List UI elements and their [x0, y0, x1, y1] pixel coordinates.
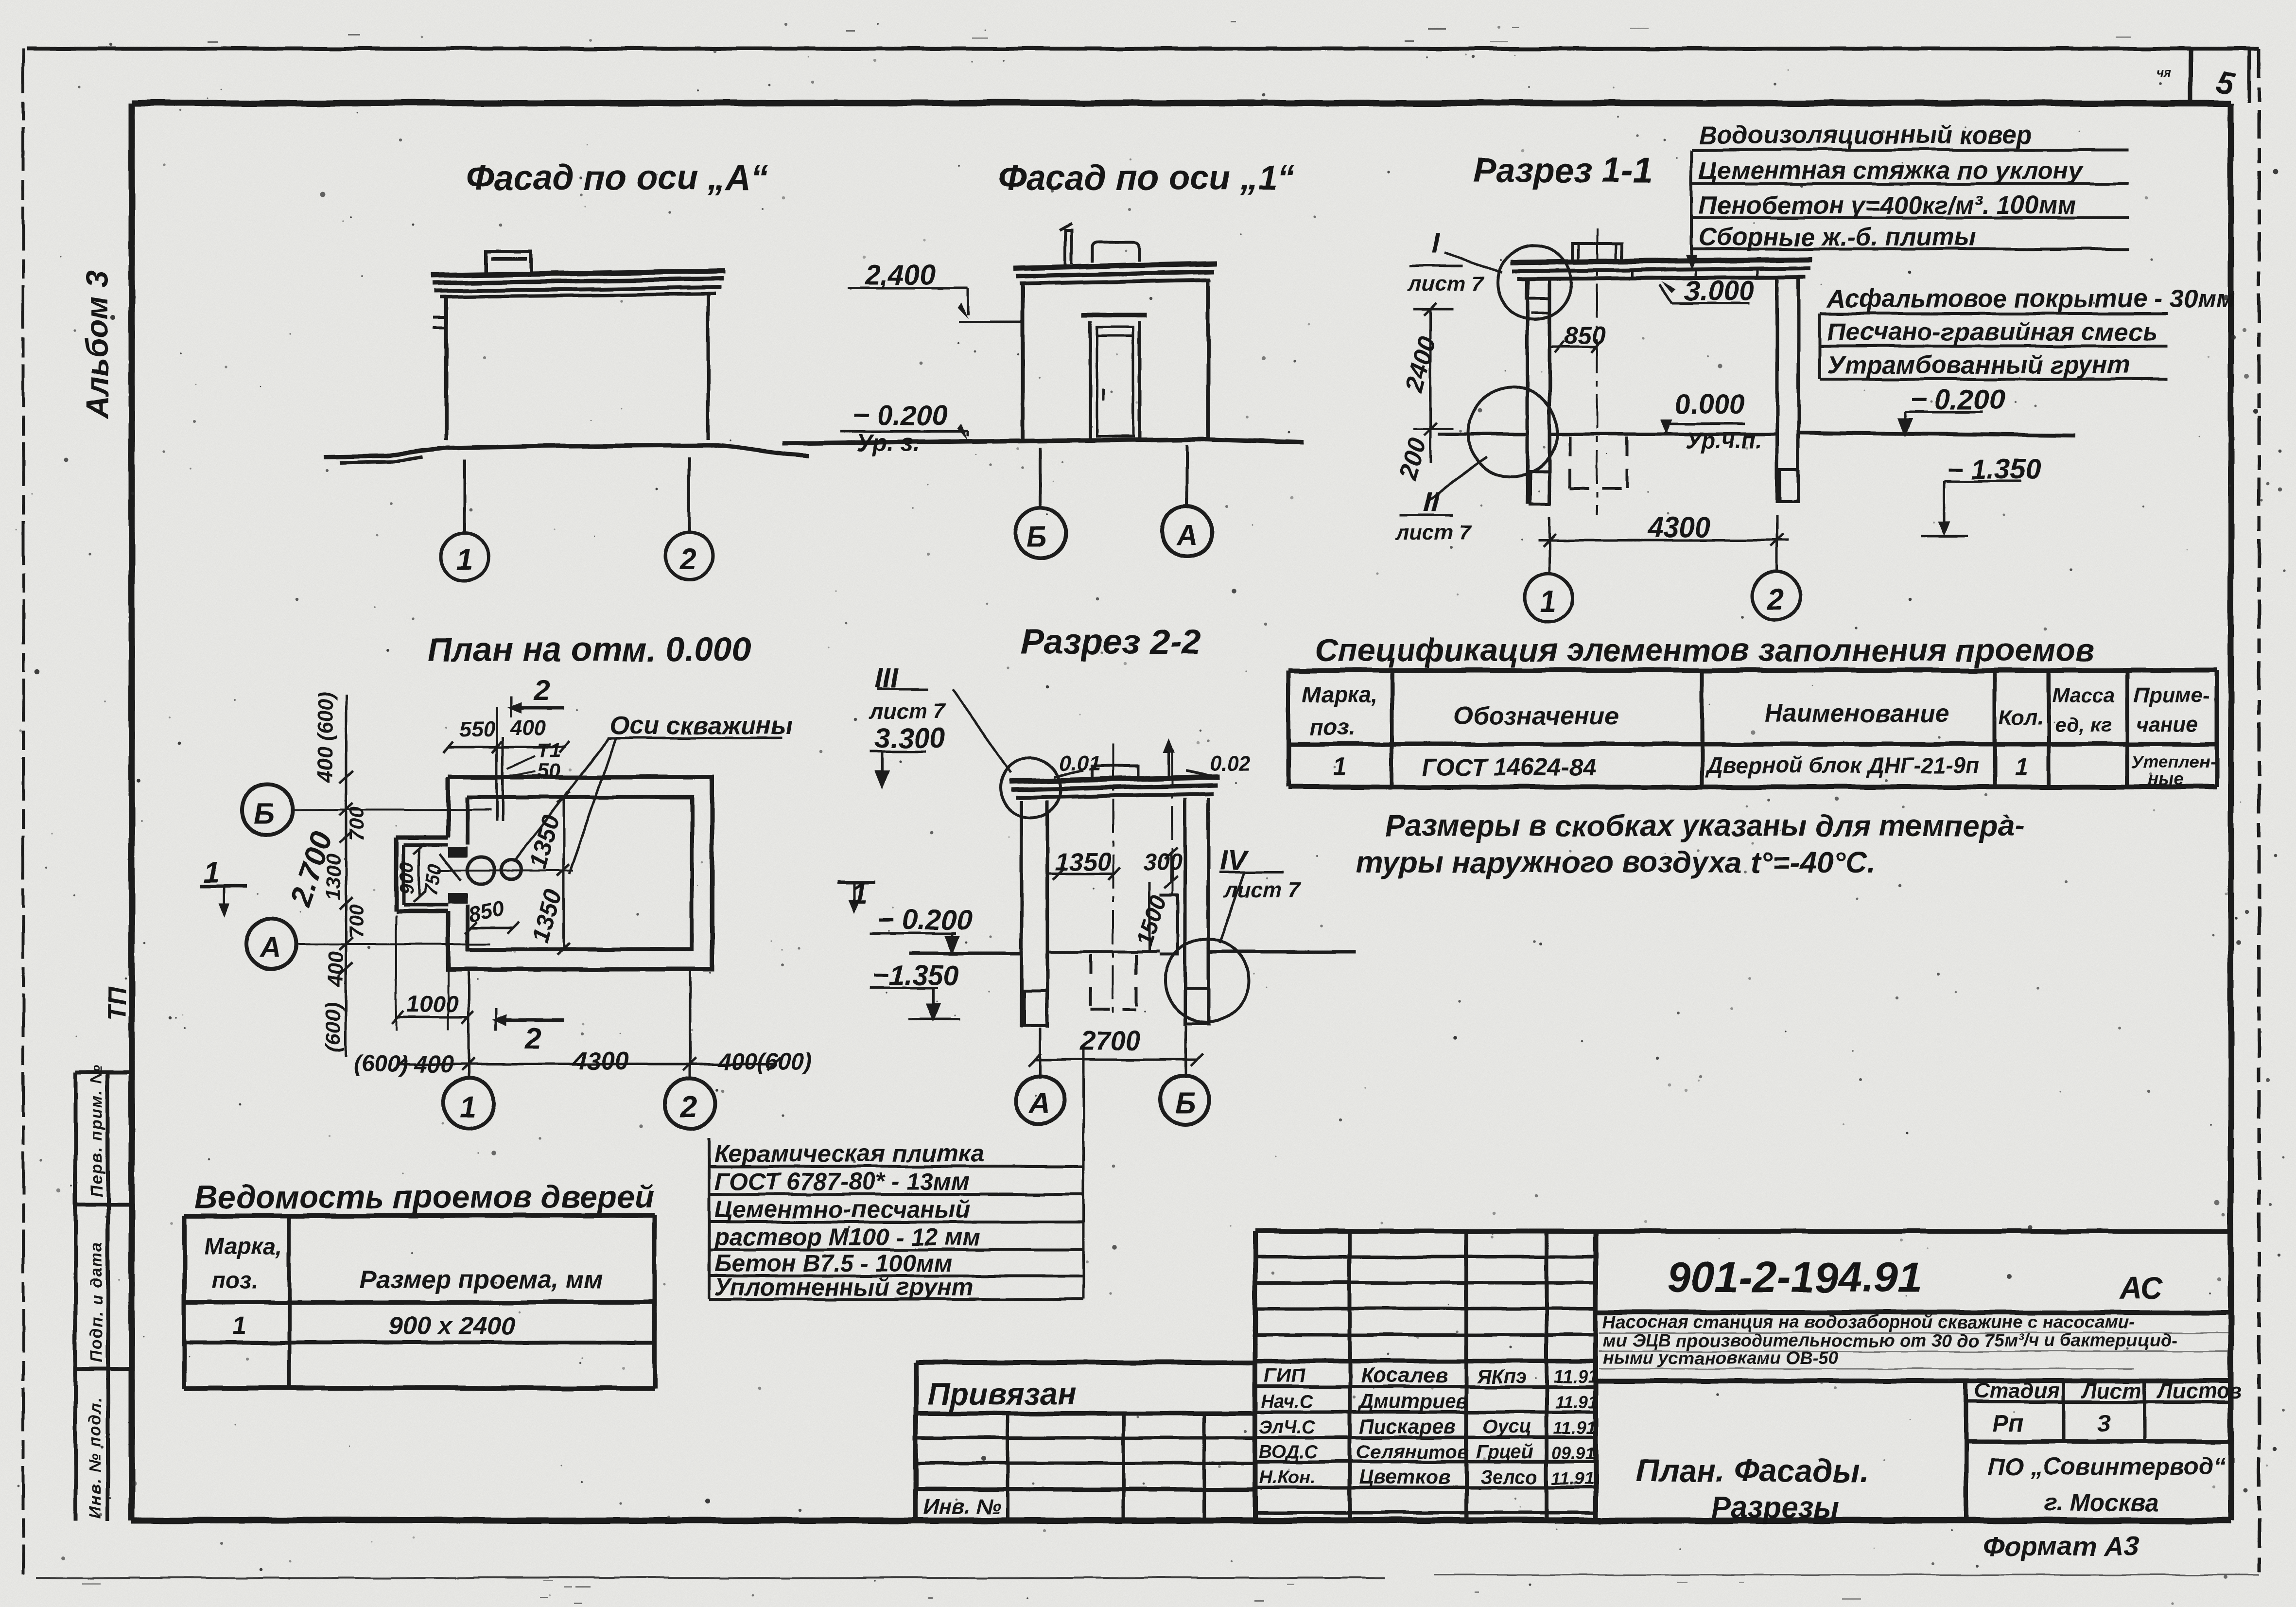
svg-text:Цементная стяжка по уклону: Цементная стяжка по уклону [1699, 157, 2084, 185]
svg-text:Приме-: Приме- [2134, 683, 2210, 707]
svg-text:Подп. и дата: Подп. и дата [87, 1241, 106, 1362]
svg-text:550: 550 [459, 717, 495, 741]
svg-text:Цветков: Цветков [1359, 1465, 1450, 1488]
svg-text:Марка,: Марка, [1303, 682, 1378, 707]
svg-text:400: 400 [510, 716, 546, 740]
svg-text:11.91: 11.91 [1555, 1392, 1598, 1412]
svg-text:1: 1 [1540, 585, 1556, 618]
svg-text:− 0.200: − 0.200 [853, 400, 948, 432]
svg-text:3.300: 3.300 [875, 722, 945, 754]
svg-text:700: 700 [345, 807, 368, 841]
svg-text:лист 7: лист 7 [1395, 521, 1472, 544]
svg-text:(600) 400: (600) 400 [354, 1051, 454, 1077]
svg-text:Водоизоляционный ковер: Водоизоляционный ковер [1699, 121, 2032, 149]
svg-text:Керамическая плитка: Керамическая плитка [714, 1140, 984, 1167]
svg-text:1: 1 [459, 1090, 476, 1124]
svg-text:Б: Б [1026, 521, 1047, 553]
svg-text:лист 7: лист 7 [869, 699, 946, 723]
svg-text:Сборные ж.-б. плиты: Сборные ж.-б. плиты [1699, 223, 1976, 251]
svg-text:2: 2 [533, 674, 550, 706]
svg-text:1: 1 [203, 856, 219, 889]
svg-text:−1.350: −1.350 [872, 960, 959, 991]
svg-text:А: А [1175, 519, 1197, 551]
svg-text:Разрез 1-1: Разрез 1-1 [1473, 151, 1652, 190]
svg-text:3.000: 3.000 [1684, 275, 1755, 307]
svg-text:11.91: 11.91 [1553, 1418, 1596, 1438]
svg-text:− 0.200: − 0.200 [1910, 384, 2005, 416]
svg-text:ные: ные [2148, 769, 2184, 789]
svg-text:Косалев: Косалев [1361, 1363, 1448, 1387]
svg-text:ТП: ТП [103, 986, 131, 1021]
svg-text:IV: IV [1220, 845, 1249, 876]
svg-text:300: 300 [1143, 850, 1182, 875]
svg-text:Н.Кон.: Н.Кон. [1259, 1467, 1316, 1487]
svg-text:Селянитов: Селянитов [1356, 1441, 1469, 1463]
svg-text:4300: 4300 [1647, 512, 1710, 543]
svg-text:ЭлЧ.С: ЭлЧ.С [1259, 1417, 1315, 1437]
svg-text:Листов: Листов [2157, 1379, 2243, 1403]
svg-text:Зелсо: Зелсо [1480, 1467, 1538, 1488]
svg-text:Уплотненный грунт: Уплотненный грунт [714, 1274, 974, 1301]
svg-text:туры наружного воздуха t°=-40°: туры наружного воздуха t°=-40°С. [1356, 846, 1876, 879]
svg-text:700: 700 [345, 904, 368, 938]
svg-text:лист 7: лист 7 [1408, 272, 1485, 296]
svg-text:Цементно-песчаный: Цементно-песчаный [714, 1196, 970, 1223]
svg-text:Перв. прим. №: Перв. прим. № [87, 1064, 106, 1197]
svg-text:Оси скважины: Оси скважины [610, 712, 793, 740]
svg-text:Дверной блок ДНГ-21-9п: Дверной блок ДНГ-21-9п [1705, 752, 1980, 778]
svg-text:Наименование: Наименование [1764, 699, 1949, 728]
svg-text:III: III [875, 663, 899, 694]
svg-text:0.01: 0.01 [1060, 751, 1101, 775]
svg-text:лист 7: лист 7 [1224, 878, 1301, 902]
svg-text:Формат А3: Формат А3 [1983, 1531, 2139, 1561]
svg-text:Размеры в скобках указаны для: Размеры в скобках указаны для темпера̀- [1385, 809, 2025, 843]
svg-text:чание: чание [2136, 713, 2198, 736]
svg-text:2700: 2700 [1079, 1025, 1141, 1056]
svg-text:Фасад по оси „1“: Фасад по оси „1“ [999, 158, 1295, 197]
svg-text:Масса: Масса [2052, 684, 2115, 707]
svg-text:чя: чя [2157, 65, 2171, 80]
svg-text:1300: 1300 [322, 855, 345, 900]
svg-text:ед, кг: ед, кг [2055, 713, 2112, 736]
svg-text:Марка,: Марка, [204, 1234, 283, 1259]
svg-text:План. Фасады.: План. Фасады. [1636, 1452, 1869, 1488]
svg-text:ГИП: ГИП [1264, 1364, 1306, 1387]
svg-text:Размер проема, мм: Размер проема, мм [360, 1266, 603, 1294]
svg-text:900 х 2400: 900 х 2400 [389, 1312, 515, 1340]
svg-text:− 0.200: − 0.200 [877, 904, 972, 936]
svg-text:50: 50 [538, 759, 560, 782]
svg-text:400: 400 [324, 951, 348, 987]
svg-text:2: 2 [679, 542, 696, 576]
svg-text:Утрамбованный грунт: Утрамбованный грунт [1827, 351, 2130, 379]
svg-text:Разрезы: Разрезы [1711, 1491, 1839, 1524]
svg-text:11.91: 11.91 [1551, 1468, 1594, 1488]
svg-text:Ур. з.: Ур. з. [856, 429, 920, 456]
svg-text:Песчано-гравийная смесь: Песчано-гравийная смесь [1827, 318, 2157, 346]
svg-text:09.91: 09.91 [1551, 1443, 1595, 1463]
svg-text:1: 1 [852, 877, 868, 909]
svg-text:Нач.С: Нач.С [1261, 1392, 1313, 1412]
svg-text:2: 2 [1767, 583, 1784, 616]
svg-text:850: 850 [1564, 322, 1606, 350]
svg-text:ВОД.С: ВОД.С [1259, 1442, 1318, 1462]
svg-text:0.000: 0.000 [1674, 389, 1745, 420]
svg-text:Рп: Рп [1993, 1410, 2024, 1437]
svg-text:− 1.350: − 1.350 [1947, 454, 2041, 485]
svg-text:0.02: 0.02 [1209, 751, 1251, 775]
svg-text:II: II [1423, 486, 1440, 518]
svg-text:ПО „Совинтервод“: ПО „Совинтервод“ [1988, 1453, 2226, 1480]
svg-text:поз.: поз. [1310, 715, 1355, 740]
svg-text:Инв. №: Инв. № [923, 1495, 1001, 1519]
svg-text:поз.: поз. [211, 1268, 258, 1293]
svg-text:11.91: 11.91 [1553, 1366, 1598, 1387]
svg-text:А: А [1028, 1087, 1050, 1119]
svg-text:400 (600): 400 (600) [313, 691, 337, 783]
svg-text:Инв. № подл.: Инв. № подл. [86, 1397, 104, 1518]
svg-text:Б: Б [1175, 1087, 1196, 1119]
svg-text:3: 3 [2097, 1410, 2111, 1437]
svg-text:Разрез 2-2: Разрез 2-2 [1021, 623, 1200, 662]
svg-text:Бетон В7.5 - 100мм: Бетон В7.5 - 100мм [714, 1250, 952, 1277]
svg-text:ГОСТ 6787-80* - 13мм: ГОСТ 6787-80* - 13мм [714, 1168, 970, 1195]
svg-text:1350: 1350 [1055, 848, 1111, 876]
svg-text:Дмитриев: Дмитриев [1357, 1390, 1468, 1413]
svg-text:4300: 4300 [572, 1047, 629, 1075]
svg-text:Кол.: Кол. [1999, 705, 2043, 729]
svg-text:раствор М100 - 12 мм: раствор М100 - 12 мм [713, 1223, 981, 1251]
svg-text:ЯКпэ: ЯКпэ [1477, 1366, 1526, 1387]
svg-text:Асфальтовое покрытие - 30мм: Асфальтовое покрытие - 30мм [1826, 285, 2235, 313]
svg-text:Лист: Лист [2081, 1379, 2141, 1403]
svg-text:Пискарев: Пискарев [1359, 1415, 1456, 1438]
svg-text:г. Москва: г. Москва [2044, 1489, 2159, 1516]
svg-text:Стадия: Стадия [1974, 1379, 2059, 1403]
svg-text:1: 1 [456, 543, 472, 576]
svg-text:Фасад по оси „А“: Фасад по оси „А“ [467, 158, 768, 197]
svg-text:2: 2 [680, 1090, 697, 1124]
svg-text:А: А [259, 931, 280, 964]
svg-text:ми ЭЦВ производительностью от: ми ЭЦВ производительностью от 30 до 75м³… [1603, 1330, 2177, 1350]
svg-text:(600): (600) [321, 1002, 345, 1052]
svg-text:Ведомость проемов дверей: Ведомость проемов дверей [194, 1179, 654, 1215]
svg-text:Обозначение: Обозначение [1453, 702, 1619, 730]
svg-text:ГОСТ 14624-84: ГОСТ 14624-84 [1422, 753, 1596, 781]
svg-text:2,400: 2,400 [865, 259, 936, 291]
svg-text:1000: 1000 [406, 992, 458, 1017]
svg-text:Спецификация элементов заполне: Спецификация элементов заполнения проемо… [1315, 632, 2095, 668]
svg-text:ными установками ОВ-50: ными установками ОВ-50 [1603, 1348, 1839, 1368]
svg-text:Альбом 3: Альбом 3 [80, 271, 115, 419]
svg-text:I: I [1431, 227, 1440, 259]
svg-text:1: 1 [232, 1312, 246, 1340]
svg-text:Насосная станция на водозаборн: Насосная станция на водозаборной скважин… [1603, 1312, 2135, 1332]
svg-text:900: 900 [396, 862, 417, 894]
svg-text:Привязан: Привязан [927, 1377, 1077, 1412]
svg-text:Б: Б [254, 797, 274, 830]
svg-text:АС: АС [2118, 1271, 2163, 1306]
svg-text:2: 2 [524, 1022, 541, 1054]
svg-text:400(600): 400(600) [718, 1049, 812, 1075]
svg-text:План на отм. 0.000: План на отм. 0.000 [428, 630, 751, 668]
svg-text:Оусц: Оусц [1482, 1416, 1531, 1437]
svg-text:Пенобетон γ=400кг/м³. 100мм: Пенобетон γ=400кг/м³. 100мм [1699, 192, 2076, 220]
svg-text:Ур.ч.п.: Ур.ч.п. [1686, 428, 1762, 454]
svg-text:Т1: Т1 [538, 739, 561, 762]
svg-text:1: 1 [2015, 753, 2028, 781]
svg-text:901-2-194.91: 901-2-194.91 [1667, 1253, 1922, 1301]
